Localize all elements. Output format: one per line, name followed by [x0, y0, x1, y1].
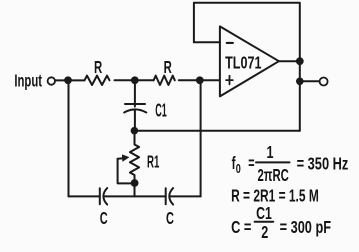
wire: left vertical from input junction down to bottom rail [68, 80, 70, 196]
label R (left resistor) [94, 57, 102, 77]
wire: left R to right R through top-tee node [115, 79, 154, 81]
svg-text:TL071: TL071 [225, 53, 262, 73]
op-amp noninverting input marker [226, 76, 233, 85]
wire: op-amp output to output column [279, 60, 300, 62]
svg-text:C1: C1 [155, 101, 167, 121]
svg-text:2πRC: 2πRC [258, 165, 289, 185]
label R (right resistor) [164, 57, 172, 77]
op-amp U1 TL071 [220, 26, 279, 96]
node: R1 bottom junction [131, 179, 139, 187]
node: output tap junction [296, 78, 304, 86]
capacitor C (bottom right) [166, 188, 173, 204]
input terminal [48, 77, 55, 84]
svg-text:R1: R1 [147, 153, 159, 173]
wire: C1 top lead from top tee node [134, 80, 136, 106]
svg-text:=: = [248, 154, 255, 173]
resistor R (left) [85, 76, 110, 85]
op-amp inverting input marker [227, 42, 233, 44]
wire: + input junction down to bottom rail corner [200, 80, 202, 196]
svg-text:C1: C1 [256, 204, 272, 224]
label C (bottom right capacitor) [166, 210, 174, 229]
wire: right R to op-amp noninverting input [179, 79, 220, 81]
label R1 [147, 153, 159, 173]
label TL071 [225, 53, 262, 73]
wire: bottom rail left segment [69, 195, 100, 197]
formula fraction bar of C1/2 [255, 221, 274, 223]
wire: bottom rail right segment [171, 195, 201, 197]
formula fraction bar of 1/(2piRC) [256, 161, 290, 163]
wire: input terminal to left resistor [56, 79, 85, 81]
label Input [14, 71, 42, 91]
label C (bottom left capacitor) [100, 210, 108, 229]
svg-text:R = 2R1 = 1.5 M: R = 2R1 = 1.5 M [231, 186, 319, 206]
wire: C1 bottom lead to bootstrap node [134, 110, 136, 131]
wire: wiper tie-down to R1 bottom node [118, 159, 135, 184]
capacitor C (bottom left) [100, 188, 107, 204]
node: top tee midpoint [131, 76, 139, 84]
output terminal [320, 78, 328, 86]
svg-text:= 300 pF: = 300 pF [280, 218, 331, 238]
svg-text:R: R [94, 57, 102, 77]
wire: bottom tee center tap up to R1 bottom node [134, 183, 136, 196]
wire: bottom rail middle segment [105, 195, 166, 197]
node: input junction [64, 76, 72, 84]
svg-text:R: R [164, 57, 172, 77]
formula f0 = 1/(2piRC) = 350 Hz [232, 143, 349, 186]
svg-text:1: 1 [267, 143, 274, 163]
wire: output tap to output terminal [300, 80, 319, 82]
potentiometer R1 wiper arrow [118, 155, 129, 162]
label C1 [155, 101, 167, 121]
svg-text:C =: C = [231, 218, 251, 238]
node: op-amp + input junction [196, 76, 204, 84]
svg-text:= 350 Hz: = 350 Hz [297, 155, 349, 175]
wire: inverting input lead [194, 41, 220, 43]
svg-text:C: C [166, 210, 174, 229]
potentiometer R1 [130, 131, 139, 180]
resistor R (right) [154, 76, 175, 85]
node: output junction [296, 57, 304, 65]
svg-text:2: 2 [261, 223, 268, 243]
wire: bootstrap line from C1 node to output column [134, 130, 299, 132]
formula R = 2R1 = 1.5 M [231, 186, 319, 206]
wire: feedback loop left vertical, top run and right vertical down to bootstrap [194, 3, 300, 131]
svg-text:C: C [100, 210, 108, 229]
node: C1 / R1 / bootstrap junction [131, 127, 139, 135]
formula C = C1/2 = 300 pF [231, 204, 331, 243]
capacitor C1 [124, 104, 146, 113]
svg-text:Input: Input [14, 71, 42, 91]
svg-text:0: 0 [236, 162, 241, 176]
